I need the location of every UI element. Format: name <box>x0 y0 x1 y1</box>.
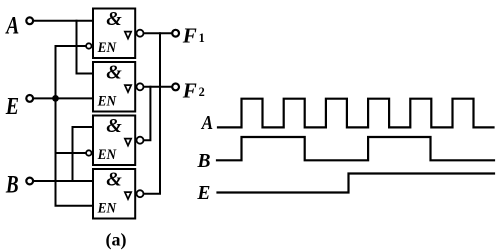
svg-text:B: B <box>5 170 19 198</box>
svg-text:2: 2 <box>199 85 205 99</box>
svg-text:&: & <box>106 8 122 30</box>
svg-text:A: A <box>5 11 20 39</box>
svg-text:EN: EN <box>97 41 117 57</box>
svg-text:(a): (a) <box>106 230 127 251</box>
svg-text:&: & <box>106 115 122 137</box>
svg-text:EN: EN <box>97 148 117 164</box>
svg-text:1: 1 <box>199 31 205 45</box>
svg-text:F: F <box>182 78 197 102</box>
svg-text:F: F <box>182 24 197 48</box>
svg-text:EN: EN <box>97 201 117 217</box>
svg-text:A: A <box>201 112 213 135</box>
svg-text:EN: EN <box>97 94 117 110</box>
svg-text:E: E <box>5 92 19 119</box>
svg-text:E: E <box>196 183 210 204</box>
svg-text:&: & <box>106 62 122 84</box>
svg-text:&: & <box>106 169 122 191</box>
svg-text:B: B <box>197 151 211 172</box>
